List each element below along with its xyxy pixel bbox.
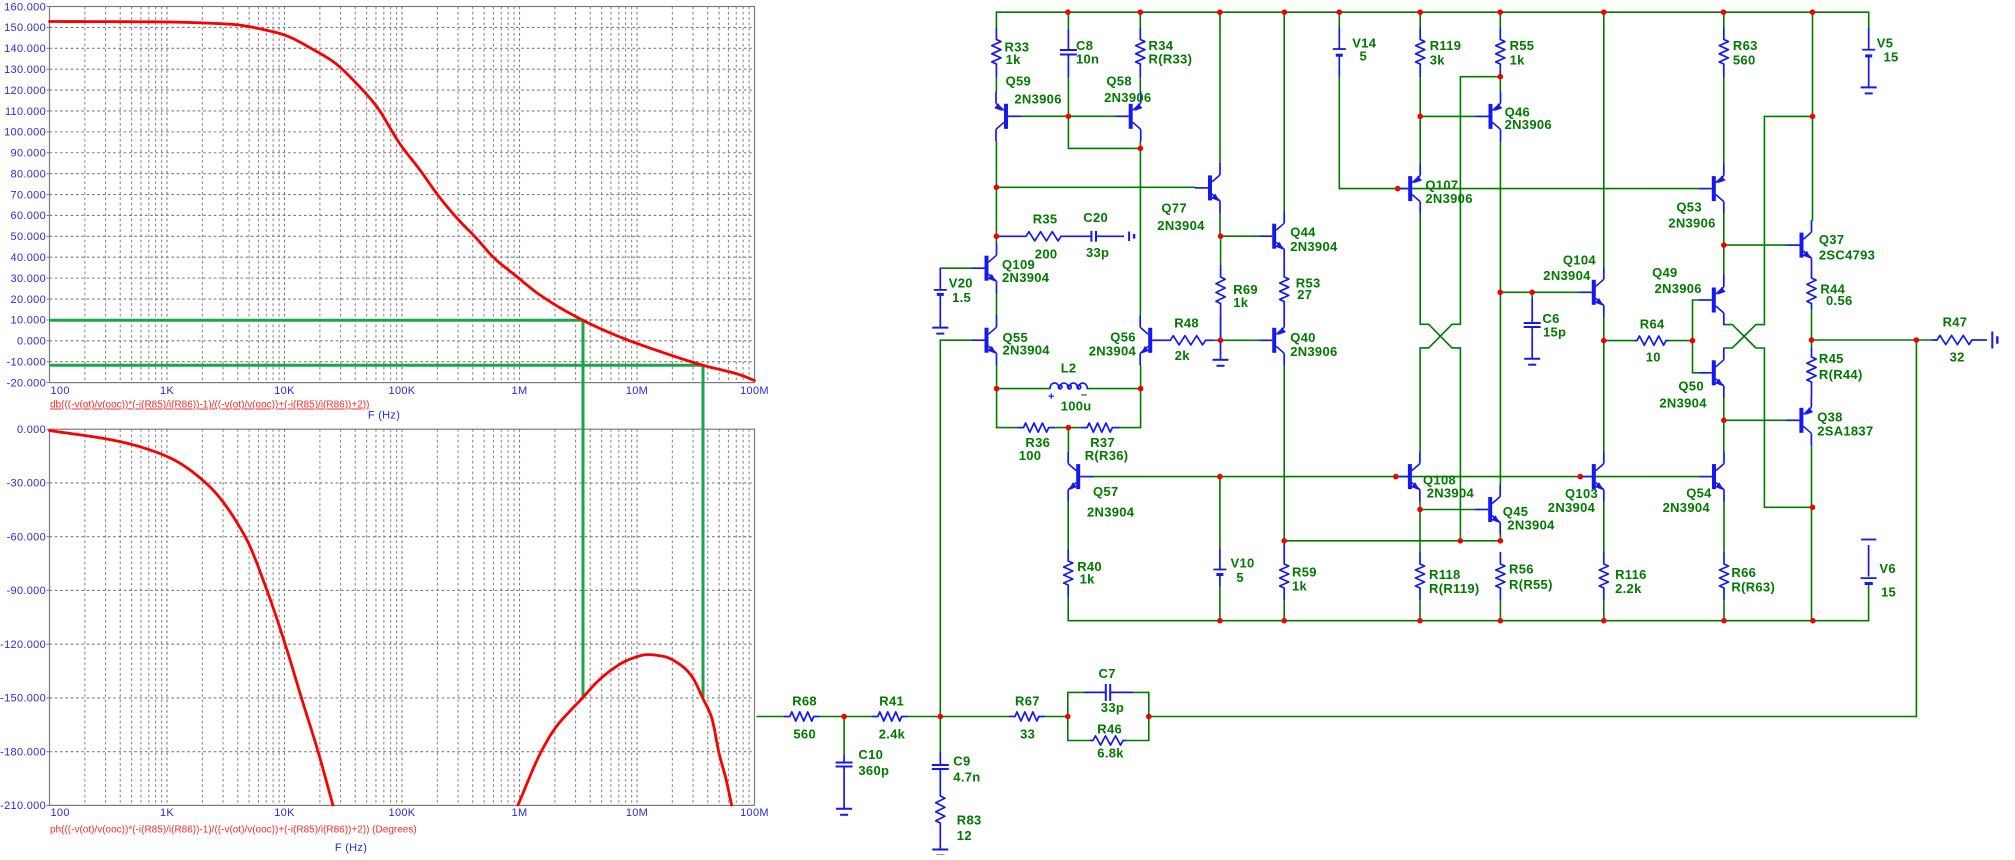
wire Q77 collector bbox=[1219, 12, 1221, 163]
wire C10 hang bbox=[843, 717, 845, 756]
svg-text:Q40: Q40 bbox=[1290, 330, 1315, 345]
svg-text:100: 100 bbox=[1019, 448, 1042, 463]
svg-text:C9: C9 bbox=[953, 754, 970, 769]
wire C7R46 left vertical bbox=[1067, 692, 1069, 740]
svg-text:-120.000: -120.000 bbox=[0, 639, 46, 651]
svg-text:27: 27 bbox=[1297, 287, 1312, 302]
svg-text:C20: C20 bbox=[1083, 210, 1108, 225]
transistor Q77 (NPN) bbox=[1195, 163, 1220, 213]
battery V5 bbox=[1862, 28, 1875, 87]
svg-text:R(R55): R(R55) bbox=[1509, 577, 1553, 592]
wire node to Q46 base bbox=[1420, 115, 1475, 117]
svg-text:20.000: 20.000 bbox=[11, 294, 46, 306]
wire cross left X a bbox=[1420, 324, 1460, 348]
svg-text:db(((-v(ot)/v(ooc))*(-i(R85)/i: db(((-v(ot)/v(ooc))*(-i(R85)/i(R86))-1)/… bbox=[50, 400, 369, 411]
svg-text:2SA1837: 2SA1837 bbox=[1817, 423, 1873, 438]
wire upper node to X bbox=[1763, 116, 1765, 324]
resistor R83 bbox=[936, 769, 945, 850]
svg-text:3k: 3k bbox=[1430, 52, 1446, 67]
svg-text:R116: R116 bbox=[1615, 567, 1647, 582]
svg-text:560: 560 bbox=[793, 727, 816, 742]
svg-text:10: 10 bbox=[1646, 350, 1661, 365]
wire output node row bbox=[1812, 339, 1917, 341]
cursor vertical line 1 bbox=[582, 320, 585, 698]
resistor R48 bbox=[1165, 336, 1213, 345]
svg-text:1K: 1K bbox=[160, 807, 174, 819]
wire R37 right bbox=[1120, 427, 1141, 429]
wire R55 top bbox=[1499, 12, 1501, 27]
svg-text:2N3906: 2N3906 bbox=[1668, 215, 1715, 230]
wire R55 node left bbox=[1460, 76, 1500, 78]
wire Q104 collector bbox=[1603, 12, 1605, 267]
svg-text:2N3904: 2N3904 bbox=[1427, 486, 1475, 501]
bottom plot x-axis labels bbox=[51, 807, 769, 819]
wire base bus Q57-Q108-Q103-Q54 bbox=[1093, 476, 1699, 478]
wire R48 to Q40 base bbox=[1221, 339, 1260, 341]
phase curve right branch bbox=[518, 655, 732, 805]
svg-text:R68: R68 bbox=[792, 693, 817, 708]
svg-text:V5: V5 bbox=[1877, 36, 1894, 51]
top plot x-axis labels bbox=[51, 385, 769, 397]
wire R55 to Q46 emitter bbox=[1499, 77, 1501, 92]
svg-text:R64: R64 bbox=[1640, 317, 1665, 332]
inductor L2 bbox=[1050, 383, 1088, 389]
wire Q55 emitter to L2 bbox=[996, 365, 998, 388]
wire L2 right node up bbox=[1140, 389, 1142, 428]
svg-text:2N3906: 2N3906 bbox=[1505, 117, 1552, 132]
svg-text:0.000: 0.000 bbox=[17, 424, 46, 436]
svg-text:560: 560 bbox=[1733, 52, 1756, 67]
battery V14 bbox=[1333, 28, 1346, 77]
wire V10 bottom bbox=[1219, 586, 1221, 621]
wire Q44 base bbox=[1221, 235, 1260, 237]
wire R68-C10 node bbox=[820, 716, 844, 718]
wire R33 top bbox=[995, 12, 997, 27]
wire Q50 emitter node bbox=[1723, 398, 1725, 421]
ground C6 ground bbox=[1524, 359, 1540, 365]
wire Q104 emitter down bbox=[1603, 317, 1605, 451]
svg-text:0.56: 0.56 bbox=[1826, 293, 1853, 308]
svg-text:40.000: 40.000 bbox=[11, 252, 46, 264]
svg-text:2N3906: 2N3906 bbox=[1104, 90, 1151, 105]
svg-text:2.2k: 2.2k bbox=[1615, 581, 1642, 596]
wire base node to Q58 collector bbox=[1068, 147, 1140, 149]
magnitude curve bbox=[50, 22, 755, 381]
wire Q49-Q50 base column bbox=[1692, 300, 1694, 373]
wire R64 left bbox=[1604, 340, 1635, 342]
svg-text:15: 15 bbox=[1881, 585, 1896, 600]
wire cross left X b bbox=[1420, 324, 1460, 348]
transistor Q45 (NPN) bbox=[1475, 485, 1500, 535]
svg-text:130.000: 130.000 bbox=[4, 64, 46, 76]
svg-text:2N3904: 2N3904 bbox=[1543, 268, 1591, 283]
ground Q40 base ground bbox=[1213, 341, 1229, 366]
wire R64 right bbox=[1669, 340, 1692, 342]
svg-text:-30.000: -30.000 bbox=[7, 478, 46, 490]
wire R55 node down bbox=[1459, 77, 1461, 325]
wire R41 to input node bbox=[908, 716, 941, 718]
resistor R35 bbox=[996, 232, 1062, 241]
top plot y-axis labels bbox=[4, 1, 49, 389]
wire Q77 emitter to Q44 base node bbox=[1219, 213, 1221, 236]
wire Q49 base bbox=[1693, 299, 1699, 301]
wire Q107 collector down bbox=[1419, 214, 1421, 325]
capacitor C6 bbox=[1524, 298, 1541, 358]
resistor R69 bbox=[1216, 265, 1225, 338]
wire Q59 base bbox=[1021, 115, 1068, 117]
svg-text:1k: 1k bbox=[1006, 52, 1022, 67]
ground R83 ground bbox=[932, 850, 948, 856]
svg-text:Q104: Q104 bbox=[1563, 253, 1596, 268]
svg-text:1k: 1k bbox=[1080, 572, 1096, 587]
transistor Q104 (NPN) bbox=[1579, 267, 1604, 317]
svg-text:100M: 100M bbox=[740, 385, 769, 397]
transistor Q58 (PNP) bbox=[1116, 91, 1143, 141]
capacitor C20 bbox=[1062, 231, 1124, 242]
wire Q109-Q55 link bbox=[996, 293, 998, 315]
ground V5 ground bbox=[1861, 87, 1877, 93]
svg-text:R(R44): R(R44) bbox=[1819, 367, 1863, 382]
svg-text:360p: 360p bbox=[858, 763, 889, 778]
svg-text:-10.000: -10.000 bbox=[7, 357, 46, 369]
svg-text:Q44: Q44 bbox=[1290, 225, 1316, 240]
svg-text:12: 12 bbox=[957, 828, 972, 843]
resistor R37 bbox=[1081, 423, 1120, 432]
svg-text:2N3904: 2N3904 bbox=[1548, 500, 1596, 515]
resistor R68 bbox=[784, 712, 820, 721]
wire C9 hang bbox=[939, 717, 941, 753]
wire R116 bottom bbox=[1603, 600, 1605, 621]
wire C7 row left bbox=[1068, 691, 1084, 693]
svg-text:2N3904: 2N3904 bbox=[1002, 270, 1050, 285]
svg-text:C10: C10 bbox=[858, 747, 883, 762]
svg-text:V6: V6 bbox=[1879, 561, 1896, 576]
wire Q58-Q56 collector column bbox=[1139, 141, 1141, 315]
wire X to node row bbox=[1459, 348, 1461, 541]
resistor R56 bbox=[1496, 552, 1505, 600]
svg-text:200: 200 bbox=[1035, 246, 1058, 261]
wire R66 bottom bbox=[1723, 600, 1725, 621]
svg-text:-90.000: -90.000 bbox=[7, 585, 46, 597]
transistor Q59 (PNP) bbox=[994, 91, 1021, 141]
svg-text:2.4k: 2.4k bbox=[879, 727, 906, 742]
wire R40 top bbox=[1067, 502, 1069, 549]
wire R48 left join bbox=[1213, 339, 1220, 341]
transistor Q53 (PNP) bbox=[1699, 164, 1726, 214]
svg-text:10.000: 10.000 bbox=[11, 315, 46, 327]
wire C8 top bbox=[1067, 12, 1069, 29]
resistor R63 bbox=[1719, 28, 1728, 78]
wire R69 top bbox=[1220, 236, 1222, 265]
wire cross right X a bbox=[1724, 325, 1765, 348]
wire V10 top bbox=[1219, 477, 1221, 548]
wire Q50 base bbox=[1693, 372, 1699, 374]
svg-text:1M: 1M bbox=[512, 385, 528, 397]
transistor Q103 (NPN) bbox=[1579, 452, 1604, 502]
svg-text:2N3904: 2N3904 bbox=[1659, 396, 1707, 411]
wire X to Q108 collector bbox=[1419, 348, 1421, 452]
wire R119 to node bbox=[1419, 77, 1421, 116]
svg-text:R(R33): R(R33) bbox=[1149, 52, 1193, 67]
resistor R116 bbox=[1599, 552, 1608, 600]
resistor R40 bbox=[1064, 549, 1073, 597]
wire input riser bbox=[939, 340, 941, 716]
svg-text:R118: R118 bbox=[1429, 567, 1461, 582]
svg-text:–: – bbox=[1081, 389, 1087, 401]
wire C6 stub bbox=[1531, 292, 1533, 298]
resistor R118 bbox=[1415, 552, 1424, 600]
wire R46 row right bbox=[1126, 740, 1149, 742]
svg-text:Q38: Q38 bbox=[1817, 410, 1842, 425]
svg-text:R(R63): R(R63) bbox=[1731, 579, 1775, 594]
svg-text:R48: R48 bbox=[1174, 315, 1199, 330]
wire node to Q107 emitter bbox=[1419, 116, 1421, 163]
svg-text:120.000: 120.000 bbox=[4, 85, 46, 97]
wire X branch to Q38 collector bbox=[1764, 506, 1812, 508]
cursor vertical line 2 bbox=[702, 365, 705, 698]
svg-text:2N3904: 2N3904 bbox=[1157, 218, 1205, 233]
wire R67 to C7 block bbox=[1045, 716, 1068, 718]
svg-text:R59: R59 bbox=[1292, 565, 1317, 580]
svg-text:10M: 10M bbox=[626, 385, 648, 397]
transistor Q56 (NPN) bbox=[1140, 315, 1165, 365]
transistor Q38 (PNP) bbox=[1786, 395, 1813, 445]
svg-text:Q53: Q53 bbox=[1676, 200, 1701, 215]
wire V5 top bbox=[1868, 12, 1870, 28]
wire V20 to Q109 base bbox=[940, 267, 971, 269]
ground C10 ground bbox=[836, 809, 852, 815]
wire Q44 collector bbox=[1283, 12, 1285, 211]
wire Q50E to Q38 base bbox=[1724, 419, 1787, 421]
wire Q56 emitter to L2 bbox=[1140, 365, 1142, 388]
resistor R33 bbox=[992, 28, 1001, 78]
wire X down right bbox=[1763, 348, 1765, 507]
resistor R46 bbox=[1090, 736, 1126, 745]
resistor R36 bbox=[1018, 423, 1055, 432]
svg-text:Q58: Q58 bbox=[1106, 74, 1131, 89]
svg-text:R56: R56 bbox=[1509, 562, 1534, 577]
svg-text:Q56: Q56 bbox=[1110, 330, 1135, 345]
svg-text:2N3904: 2N3904 bbox=[1507, 518, 1555, 533]
svg-text:100K: 100K bbox=[389, 385, 416, 397]
wire R44 bottom node bbox=[1811, 309, 1813, 340]
transistor Q44 (NPN) bbox=[1259, 211, 1284, 261]
wire L2 row right bbox=[1087, 388, 1141, 390]
resistor R44 bbox=[1807, 270, 1816, 309]
wire R56 bottom bbox=[1499, 600, 1501, 621]
wire R36 row left bbox=[997, 427, 1018, 429]
wire Q77 base row bbox=[996, 186, 1195, 188]
transistor Q109 (NPN) bbox=[972, 243, 997, 293]
svg-text:4.7n: 4.7n bbox=[953, 769, 980, 784]
svg-text:F (Hz): F (Hz) bbox=[368, 410, 400, 422]
svg-text:140.000: 140.000 bbox=[4, 43, 46, 55]
battery V20 bbox=[934, 268, 947, 327]
svg-text:100.000: 100.000 bbox=[4, 127, 46, 139]
wire V14 top bbox=[1338, 12, 1340, 27]
svg-text:2N3906: 2N3906 bbox=[1014, 92, 1061, 107]
wire ground rail bottom bbox=[1068, 620, 1868, 622]
svg-text:1M: 1M bbox=[512, 807, 528, 819]
resistor R119 bbox=[1416, 28, 1425, 78]
svg-text:R(R119): R(R119) bbox=[1429, 581, 1480, 596]
svg-text:2N3906: 2N3906 bbox=[1290, 344, 1337, 359]
svg-text:R63: R63 bbox=[1733, 38, 1758, 53]
battery V10 bbox=[1213, 548, 1226, 586]
wire feedback row bbox=[1149, 716, 1917, 718]
top Bode magnitude plot grid bbox=[50, 7, 755, 383]
transistor Q49 (PNP) bbox=[1699, 275, 1726, 325]
resistor R47 bbox=[1932, 335, 1978, 344]
wire input node to R67 bbox=[940, 716, 1009, 718]
battery V6 bbox=[1861, 540, 1877, 585]
wire R40 bottom bbox=[1067, 597, 1069, 621]
resistor R67 bbox=[1009, 712, 1045, 721]
svg-text:F (Hz): F (Hz) bbox=[335, 842, 367, 854]
resistor R41 bbox=[872, 712, 908, 721]
svg-text:R119: R119 bbox=[1430, 38, 1462, 53]
wire Q53C to Q37 base bbox=[1724, 244, 1787, 246]
wire Q107-Q53 base row bbox=[1339, 188, 1699, 190]
resistor R55 bbox=[1496, 28, 1505, 78]
cursor horizontal line at -11 dB bbox=[50, 364, 704, 367]
svg-text:33p: 33p bbox=[1086, 245, 1109, 260]
transistor Q50 (NPN) bbox=[1699, 348, 1724, 398]
svg-text:80.000: 80.000 bbox=[11, 168, 46, 180]
wire Q103 emitter to R116 bbox=[1603, 502, 1605, 552]
svg-text:10n: 10n bbox=[1076, 52, 1099, 67]
wire R45 top bbox=[1811, 340, 1813, 348]
svg-text:Q77: Q77 bbox=[1161, 201, 1186, 216]
svg-text:2SC4793: 2SC4793 bbox=[1819, 248, 1875, 263]
svg-text:70.000: 70.000 bbox=[11, 189, 46, 201]
wire R47 to terminal bbox=[1978, 339, 1988, 341]
svg-text:2N3904: 2N3904 bbox=[1663, 500, 1711, 515]
wire feedback riser bbox=[1915, 340, 1917, 717]
svg-text:-150.000: -150.000 bbox=[0, 693, 46, 705]
svg-text:Q54: Q54 bbox=[1686, 486, 1712, 501]
resistor R64 bbox=[1634, 336, 1669, 345]
svg-text:1.5: 1.5 bbox=[952, 290, 971, 305]
svg-text:15: 15 bbox=[1884, 50, 1899, 65]
svg-text:1k: 1k bbox=[1292, 579, 1308, 594]
svg-text:R47: R47 bbox=[1943, 315, 1968, 330]
transistor Q55 (NPN) bbox=[972, 315, 997, 365]
svg-text:2N3904: 2N3904 bbox=[1290, 239, 1338, 254]
svg-text:R66: R66 bbox=[1731, 565, 1756, 580]
svg-text:60.000: 60.000 bbox=[11, 210, 46, 222]
wire input left bbox=[757, 716, 784, 718]
wire node row Q45 emitter bbox=[1284, 540, 1500, 542]
wire Q108E to R118 bbox=[1419, 510, 1421, 553]
wire L2 left node down bbox=[996, 389, 998, 428]
wire R34 top bbox=[1139, 12, 1141, 27]
svg-text:100K: 100K bbox=[389, 807, 416, 819]
svg-text:100: 100 bbox=[51, 385, 70, 397]
capacitor C8 bbox=[1060, 30, 1077, 78]
svg-text:33: 33 bbox=[1020, 727, 1035, 742]
wire L2 row left bbox=[997, 388, 1050, 390]
svg-text:2N3906: 2N3906 bbox=[1425, 191, 1472, 206]
wire Q38 collector down bbox=[1811, 445, 1813, 620]
svg-text:6.8k: 6.8k bbox=[1097, 746, 1124, 761]
transistor Q37 (NPN) bbox=[1787, 220, 1812, 270]
wire R69 bottom node bbox=[1220, 316, 1222, 341]
svg-text:+: + bbox=[1048, 391, 1055, 403]
svg-text:0.000: 0.000 bbox=[17, 336, 46, 348]
svg-text:R55: R55 bbox=[1510, 38, 1535, 53]
wire Q108E to Q45 base bbox=[1420, 509, 1475, 511]
resistor R34 bbox=[1136, 28, 1145, 78]
wire Q104 base row bbox=[1500, 291, 1578, 293]
svg-text:1k: 1k bbox=[1233, 295, 1249, 310]
svg-text:Q50: Q50 bbox=[1678, 378, 1703, 393]
transistor Q57 (NPN) bbox=[1068, 452, 1093, 502]
wire Q54 emitter to R66 bbox=[1723, 502, 1725, 552]
svg-text:2N3906: 2N3906 bbox=[1655, 281, 1702, 296]
transistor Q107 (PNP) bbox=[1395, 164, 1422, 214]
svg-text:10K: 10K bbox=[274, 385, 295, 397]
svg-text:30.000: 30.000 bbox=[11, 273, 46, 285]
svg-text:R(R36): R(R36) bbox=[1085, 448, 1129, 463]
resistor R53 bbox=[1280, 261, 1289, 315]
svg-text:V20: V20 bbox=[949, 275, 973, 290]
wire V+ to Q37 collector bbox=[1812, 12, 1814, 220]
svg-text:-20.000: -20.000 bbox=[7, 377, 46, 389]
svg-text:R45: R45 bbox=[1819, 351, 1844, 366]
svg-text:ph(((-v(ot)/v(ooc))*(-i(R85)/i: ph(((-v(ot)/v(ooc))*(-i(R85)/i(R86))-1)/… bbox=[50, 825, 417, 836]
svg-text:V10: V10 bbox=[1231, 556, 1255, 571]
svg-text:-180.000: -180.000 bbox=[0, 746, 46, 758]
svg-text:160.000: 160.000 bbox=[4, 1, 46, 13]
svg-text:Q59: Q59 bbox=[1006, 74, 1031, 89]
wire C10 node to R41 bbox=[844, 716, 872, 718]
resistor R66 bbox=[1719, 552, 1728, 600]
terminal output terminal bbox=[1992, 332, 1997, 349]
svg-text:5: 5 bbox=[1236, 570, 1244, 585]
svg-text:32: 32 bbox=[1950, 350, 1965, 365]
wire Q58 base bbox=[1068, 115, 1115, 117]
terminal C20 out bbox=[1129, 232, 1134, 242]
svg-text:100M: 100M bbox=[740, 807, 769, 819]
svg-text:100: 100 bbox=[51, 807, 70, 819]
wire Q59 collector column bbox=[995, 141, 997, 243]
resistor R45 bbox=[1807, 348, 1816, 395]
wire R34 to Q58 bbox=[1139, 77, 1141, 91]
wire Q108 emitter node bbox=[1419, 502, 1421, 510]
transistor Q108 (NPN) bbox=[1395, 452, 1420, 502]
svg-text:1k: 1k bbox=[1510, 52, 1526, 67]
svg-text:Q103: Q103 bbox=[1565, 486, 1598, 501]
svg-text:110.000: 110.000 bbox=[5, 106, 46, 118]
wire C7R46 right vertical bbox=[1148, 692, 1150, 740]
svg-text:15p: 15p bbox=[1543, 325, 1566, 340]
capacitor C10 bbox=[836, 755, 853, 809]
transistor Q40 (PNP) bbox=[1259, 315, 1286, 365]
ground V20 ground bbox=[932, 328, 948, 334]
svg-text:150.000: 150.000 bbox=[4, 22, 46, 34]
wire output to R47 bbox=[1916, 339, 1931, 341]
transistor Q54 (NPN) bbox=[1699, 452, 1724, 502]
wire V6 bottom corner bbox=[1868, 585, 1870, 621]
svg-text:1K: 1K bbox=[160, 385, 174, 397]
capacitor C7 bbox=[1084, 684, 1133, 701]
wire Q46 collector down bbox=[1499, 141, 1501, 484]
wire Q57 base node down bbox=[1067, 428, 1069, 452]
svg-text:50.000: 50.000 bbox=[11, 231, 46, 243]
bottom plot y-axis labels bbox=[0, 424, 49, 812]
svg-text:Q49: Q49 bbox=[1652, 265, 1677, 280]
